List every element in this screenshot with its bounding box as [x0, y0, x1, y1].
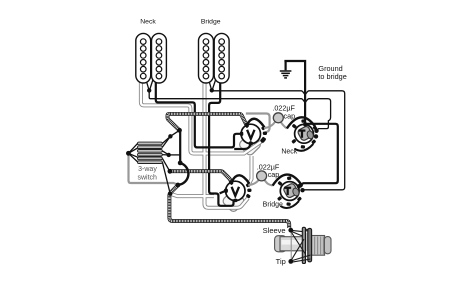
- svg-text:cap.: cap.: [268, 170, 282, 179]
- svg-text:Bridge: Bridge: [263, 201, 283, 208]
- svg-text:Neck: Neck: [140, 19, 156, 26]
- svg-text:switch: switch: [137, 174, 157, 181]
- svg-text:Bridge: Bridge: [201, 19, 221, 26]
- svg-text:Sleeve: Sleeve: [263, 226, 286, 235]
- svg-text:3-way: 3-way: [138, 166, 157, 173]
- svg-text:to bridge: to bridge: [318, 72, 346, 81]
- svg-text:cap.: cap.: [284, 111, 298, 120]
- svg-text:Neck: Neck: [281, 149, 297, 156]
- svg-text:Tip: Tip: [276, 257, 286, 266]
